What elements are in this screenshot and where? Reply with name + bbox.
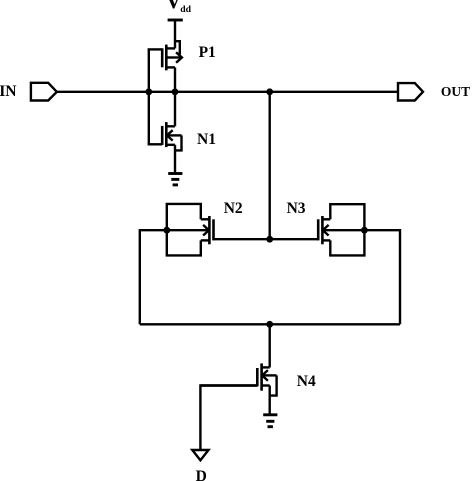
wire bottom rail — [140, 323, 400, 325]
P1 bulk arrow (points out = PMOS) — [166, 56, 181, 58]
N1 bulk arrow (points in = NMOS) — [167, 134, 182, 136]
junction dot (N2 terminals) — [163, 227, 170, 234]
transistor N1 (NMOS) — [148, 122, 182, 150]
svg-text:D: D — [196, 468, 207, 481]
junction dot (N3 terminals) — [361, 227, 368, 234]
N2 top stub — [201, 218, 210, 220]
N4 channel bar — [260, 363, 263, 390]
svg-text:dd: dd — [180, 4, 191, 15]
P1 drain stub (bottom) — [166, 66, 175, 68]
wire N3 node to right rail — [364, 230, 400, 324]
junction dot (rail to N4 drain) — [266, 321, 273, 328]
transistor N2 (NMOS capacitor, gate on right) — [167, 204, 270, 256]
N4 drain stub (top) — [262, 366, 270, 368]
N2 bulk arrow (points in = NMOS) — [167, 229, 209, 231]
N4 gate lead — [200, 384, 257, 386]
N1 gate bar — [161, 126, 164, 145]
label Vdd — [166, 0, 192, 15]
N3 bulk arrow (points in = NMOS) — [323, 229, 365, 231]
N1 source stub (bottom) — [166, 144, 175, 146]
wire N1 drain to output node — [174, 92, 176, 127]
pin D (triangle) — [192, 450, 208, 460]
N3 gate lead — [270, 238, 319, 240]
transistor N3 (NMOS capacitor, gate on left) — [270, 204, 365, 255]
ground (N1 source) — [168, 174, 182, 185]
junction dot (OUT tap to caps) — [266, 88, 273, 95]
power bar Vdd — [168, 19, 183, 22]
P1 gate bar — [161, 48, 164, 67]
N2 channel bar — [208, 216, 211, 244]
N1 bulk-to-source hook — [175, 135, 182, 150]
P1 source stub (top) — [166, 47, 175, 49]
pin IN — [31, 83, 57, 101]
junction dot (inverter output) — [172, 88, 179, 95]
P1 channel bar — [165, 45, 168, 71]
svg-text:P1: P1 — [199, 44, 216, 61]
wire N4 gate to pin D — [200, 386, 257, 450]
N4 bulk-to-source hook — [270, 375, 277, 395]
wire rail down to N4 drain — [269, 324, 271, 367]
N3 gate bar — [317, 219, 320, 240]
N4 gate bar — [256, 368, 259, 386]
P1 gate lead — [148, 48, 163, 50]
transistor N4 (NMOS) — [200, 363, 276, 395]
svg-text:V: V — [166, 0, 182, 13]
wire gate bus (IN vertical) — [148, 49, 150, 144]
wire OUT node down to N2/N3 gates — [269, 92, 271, 239]
wire IN to OUT (main horizontal) — [57, 91, 398, 93]
wire P1 drain to output node — [174, 67, 176, 91]
transistor P1 (PMOS) — [148, 41, 182, 70]
N3 channel bar — [321, 216, 324, 244]
svg-text:N1: N1 — [197, 131, 216, 148]
svg-text:N2: N2 — [224, 200, 243, 217]
svg-text:OUT: OUT — [441, 84, 470, 99]
N4 bulk arrow (points in = NMOS) — [262, 374, 276, 376]
P1 bulk-to-source hook — [175, 41, 180, 54]
N3 top stub — [322, 218, 330, 220]
wire N4 source to ground — [269, 386, 271, 415]
junction dot (N2/N3 gate node) — [266, 236, 273, 243]
svg-text:IN: IN — [0, 83, 17, 100]
N4 source stub (bottom) — [262, 384, 270, 386]
N2 bottom stub — [201, 239, 210, 241]
pin OUT — [398, 83, 423, 100]
svg-text:N3: N3 — [287, 200, 306, 217]
N1 channel bar — [165, 122, 168, 147]
N1 gate lead — [148, 143, 163, 145]
wire Vdd bar to P1 source — [174, 20, 176, 48]
svg-text:N4: N4 — [297, 373, 316, 390]
N2 gate bar — [212, 219, 215, 240]
ground (N4 source) — [263, 415, 277, 427]
N3 source/drain loop — [330, 204, 364, 255]
N2 source/drain loop — [167, 204, 201, 256]
N1 drain stub (top) — [166, 125, 175, 127]
wire N2 node to left rail — [140, 230, 167, 324]
wire N1 source to ground — [174, 145, 176, 174]
N2 gate lead — [214, 238, 270, 240]
N3 bottom stub — [322, 239, 330, 241]
junction dot (gate bus tap) — [145, 88, 152, 95]
